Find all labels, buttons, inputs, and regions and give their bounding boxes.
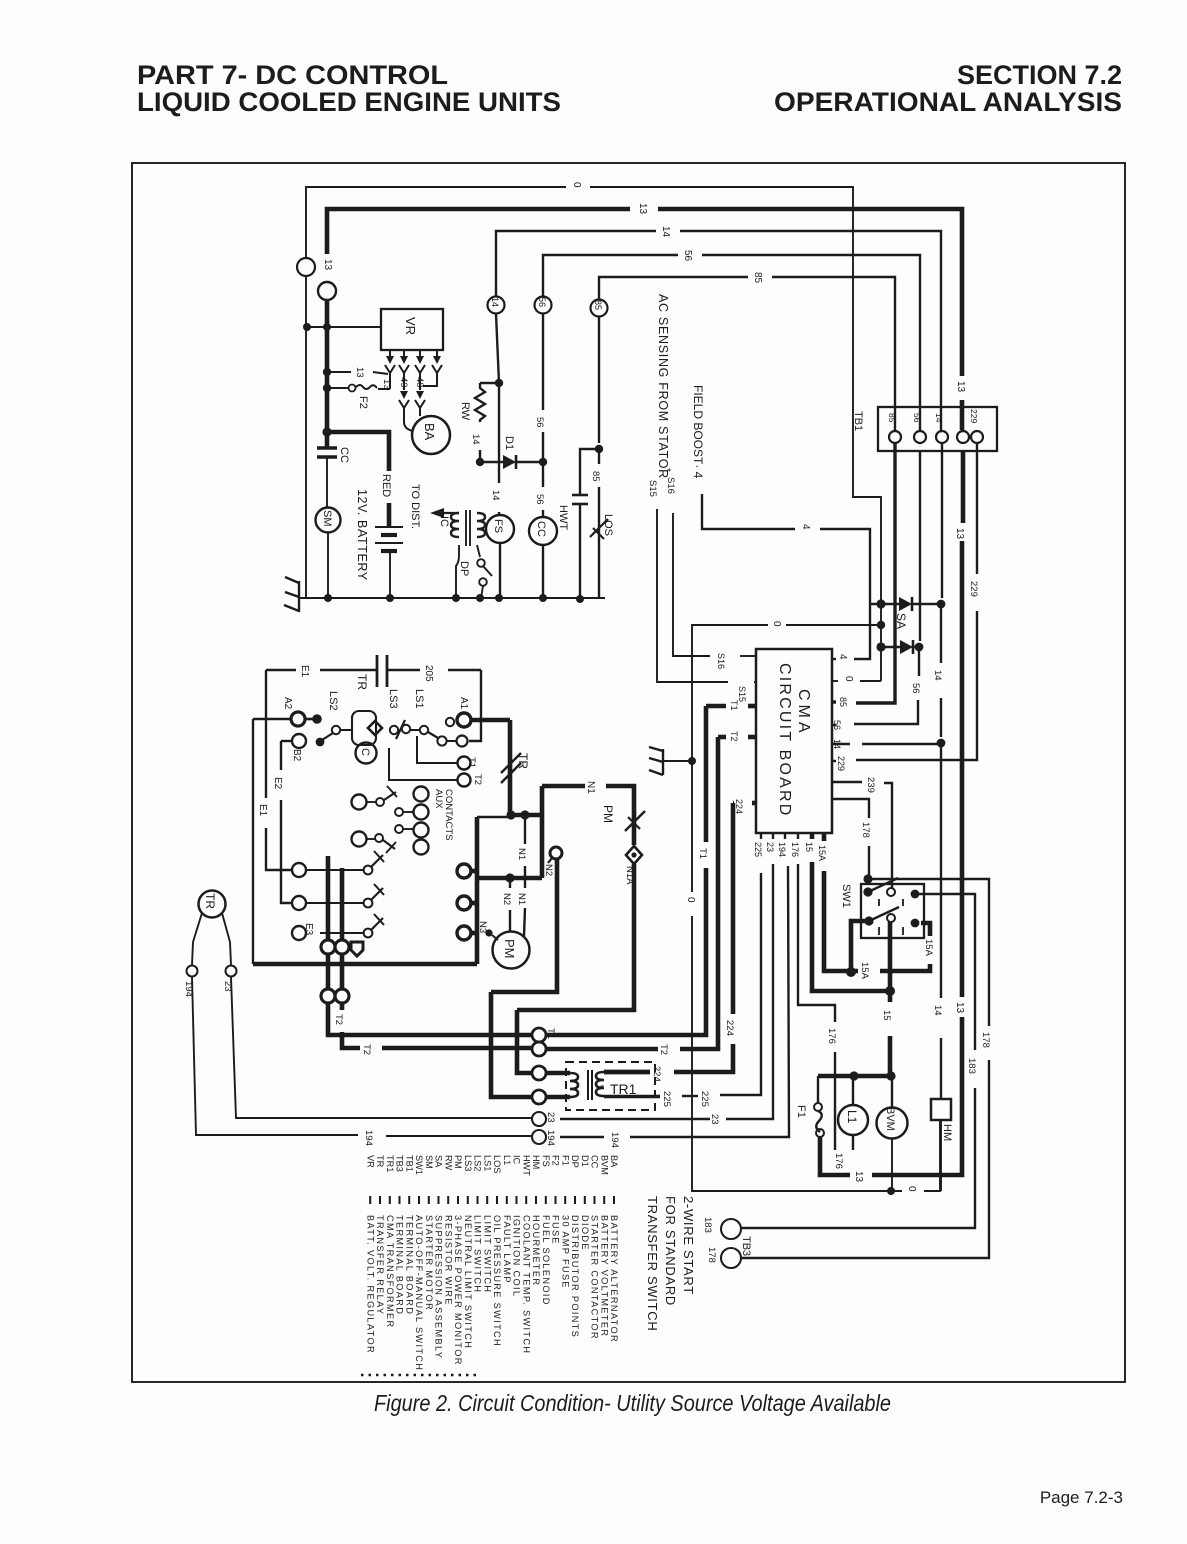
svg-text:A1: A1 <box>458 697 469 710</box>
svg-text:0: 0 <box>906 1186 917 1192</box>
svg-text:BA: BA <box>422 423 437 441</box>
svg-text:E3: E3 <box>303 923 314 936</box>
wire A2 enclosure left <box>252 719 254 964</box>
wire E1 left drop <box>265 670 267 798</box>
wire T1 bus drop <box>328 1003 532 1035</box>
wire IC right to DP <box>477 545 480 557</box>
battery voltmeter BVM <box>877 1108 908 1139</box>
CMA circuit board box <box>756 649 832 833</box>
svg-text:224: 224 <box>651 1066 662 1082</box>
terminal board TB3 circle 183 <box>721 1219 741 1239</box>
svg-text:PM: PM <box>601 805 615 823</box>
enclosure bottom edge <box>253 962 477 967</box>
wire CMA pin T2 <box>748 735 756 740</box>
svg-text:SW1: SW1 <box>414 1155 424 1175</box>
svg-text:CMA TRANSFORMER: CMA TRANSFORMER <box>385 1215 395 1329</box>
svg-text:CMA: CMA <box>795 689 812 737</box>
svg-text:CC: CC <box>338 447 350 463</box>
svg-text:PART 7- DC CONTROL: PART 7- DC CONTROL <box>137 60 448 90</box>
transfer relay TR coil <box>199 891 226 918</box>
TB1 terminal 14 <box>936 431 948 443</box>
wire net 56 to CC <box>542 314 544 410</box>
svg-text:194: 194 <box>777 842 787 857</box>
svg-text:BA: BA <box>609 1155 619 1168</box>
battery 12V <box>375 526 403 528</box>
capacitor CC <box>317 446 337 449</box>
svg-text:178: 178 <box>860 822 871 838</box>
svg-text:56: 56 <box>534 494 545 505</box>
svg-text:TR1: TR1 <box>385 1155 395 1172</box>
terminals T1 T2 aux <box>458 757 471 770</box>
wire VR supply <box>307 326 381 328</box>
svg-text:RESISTOR WIRE: RESISTOR WIRE <box>443 1215 453 1306</box>
svg-text:N3: N3 <box>477 921 488 933</box>
svg-text:HM: HM <box>941 1124 953 1141</box>
svg-text:FIELD BOOST· 4: FIELD BOOST· 4 <box>691 385 705 479</box>
svg-text:56: 56 <box>910 683 921 694</box>
wire VR pin2 to BA <box>403 378 405 390</box>
svg-text:TB1: TB1 <box>852 411 864 431</box>
svg-text:224: 224 <box>724 1020 735 1036</box>
svg-text:LS1: LS1 <box>413 689 425 709</box>
svg-text:224: 224 <box>734 799 744 814</box>
svg-text:F2: F2 <box>357 396 369 409</box>
svg-text:RW: RW <box>443 1155 453 1170</box>
svg-text:14: 14 <box>490 297 500 307</box>
wire 14 to FS <box>498 383 500 483</box>
svg-text:RED: RED <box>380 474 392 497</box>
svg-text:PM: PM <box>502 939 517 959</box>
wire CMA pin 239 to SW1 <box>832 781 862 783</box>
svg-text:CONTACTS: CONTACTS <box>443 789 454 841</box>
terminal N2 feed <box>550 847 562 859</box>
svg-text:HWT: HWT <box>557 505 569 530</box>
starter contactor CC <box>529 517 557 545</box>
terminal A2 <box>253 718 291 720</box>
wire N1A to terminal <box>517 864 634 1010</box>
terminal 23 ring <box>532 1112 546 1126</box>
svg-text:15: 15 <box>804 842 814 852</box>
branch wire to N2 <box>477 876 542 881</box>
svg-text:IC: IC <box>512 1155 522 1165</box>
svg-text:FUEL SOLENOID: FUEL SOLENOID <box>541 1215 551 1306</box>
svg-text:NEUTRAL LIMIT SWITCH: NEUTRAL LIMIT SWITCH <box>463 1215 473 1349</box>
wire SW1 row2 left to 15A <box>851 921 869 968</box>
svg-text:BVM: BVM <box>884 1107 896 1131</box>
wire TR to 23 terminal <box>222 913 231 965</box>
svg-text:229: 229 <box>968 581 979 597</box>
node 14 terminal circle <box>488 297 505 314</box>
svg-text:S16: S16 <box>665 477 676 494</box>
main contact row 3 E3 <box>292 926 306 940</box>
svg-text:SM: SM <box>321 510 333 527</box>
wire net 0 branch to ground bus <box>786 624 881 626</box>
node 85 terminal circle <box>591 300 608 317</box>
wire net 13 thick top run <box>327 209 630 254</box>
CMA bottom pin 225 <box>760 833 762 839</box>
svg-text:TB3: TB3 <box>395 1155 405 1172</box>
svg-text:LS3: LS3 <box>463 1155 473 1171</box>
svg-text:F2: F2 <box>551 1155 561 1166</box>
oil pressure switch LOS <box>590 519 608 537</box>
svg-text:BATT. VOLT. REGULATOR: BATT. VOLT. REGULATOR <box>365 1215 375 1354</box>
terminal board TB3 circle 178 <box>721 1248 741 1268</box>
wire E1 top <box>266 669 296 671</box>
terminal A1 <box>446 718 454 726</box>
arrow TO DIST <box>444 512 459 514</box>
svg-text:Figure 2. Circuit Condition- U: Figure 2. Circuit Condition- Utility Sou… <box>374 1390 891 1416</box>
wire 183 SW1 to TB3 <box>915 894 975 1050</box>
CMA bottom pin 15 thick <box>810 833 815 839</box>
svg-text:14: 14 <box>470 434 481 445</box>
svg-text:TB3: TB3 <box>740 1236 752 1256</box>
svg-text:23: 23 <box>765 842 775 852</box>
svg-text:HM: HM <box>531 1155 541 1169</box>
suppression assembly SA diode 2 <box>881 646 900 648</box>
svg-text:LOS: LOS <box>492 1155 502 1173</box>
svg-text:85: 85 <box>590 471 601 482</box>
distributor points DP <box>477 559 485 567</box>
terminal T1 ring <box>532 1028 546 1042</box>
starter motor SM <box>316 508 341 533</box>
svg-text:LS1: LS1 <box>482 1155 492 1171</box>
svg-text:TR1: TR1 <box>610 1081 637 1097</box>
TB1 terminal 56 <box>914 431 926 443</box>
fuse F2 <box>327 387 348 389</box>
svg-text:205: 205 <box>423 665 434 682</box>
wire S16 to CMA <box>673 513 710 656</box>
svg-text:15: 15 <box>881 1010 892 1021</box>
svg-text:30 AMP FUSE: 30 AMP FUSE <box>560 1215 570 1289</box>
svg-text:176: 176 <box>833 1153 844 1169</box>
svg-text:225: 225 <box>661 1091 672 1107</box>
svg-text:T1: T1 <box>697 848 708 859</box>
svg-text:13: 13 <box>853 1171 864 1183</box>
svg-text:56: 56 <box>534 417 545 428</box>
svg-text:STARTER CONTACTOR: STARTER CONTACTOR <box>590 1215 600 1340</box>
wire A1 to TR contact thick <box>471 718 510 723</box>
svg-text:14: 14 <box>932 670 943 681</box>
svg-text:AC SENSING FROM STATOR: AC SENSING FROM STATOR <box>656 294 670 479</box>
svg-text:225: 225 <box>753 842 763 857</box>
svg-text:FS: FS <box>492 519 504 533</box>
switch SW1 box <box>861 884 924 938</box>
svg-text:CC: CC <box>590 1155 600 1169</box>
wire CMA pin 224 <box>752 801 756 806</box>
coolant temp switch HWT <box>580 449 599 495</box>
svg-text:SA: SA <box>894 613 908 629</box>
wire N1 pigtail to PM <box>524 815 526 844</box>
TB1 terminal 13 <box>957 431 969 443</box>
svg-text:239: 239 <box>865 777 876 793</box>
CMA bottom pin 194 <box>784 833 786 839</box>
CMA transformer TR1 dashed box <box>566 1062 655 1110</box>
svg-text:VR: VR <box>403 317 418 335</box>
svg-text:0: 0 <box>571 182 582 188</box>
svg-text:T2: T2 <box>361 1044 372 1055</box>
svg-text:229: 229 <box>969 409 979 423</box>
svg-text:0: 0 <box>843 676 854 682</box>
svg-text:SA: SA <box>434 1155 444 1168</box>
svg-text:F1: F1 <box>795 1105 807 1118</box>
svg-text:*: * <box>661 468 672 472</box>
svg-text:85: 85 <box>593 300 603 310</box>
svg-text:SUPPRESSION ASSEMBLY: SUPPRESSION ASSEMBLY <box>434 1215 444 1359</box>
svg-text:CIRCUIT BOARD: CIRCUIT BOARD <box>776 663 793 818</box>
svg-text:DIODE: DIODE <box>580 1215 590 1251</box>
svg-text:13: 13 <box>354 367 365 378</box>
svg-text:HOURMETER: HOURMETER <box>531 1215 541 1286</box>
svg-text:DISTRIBUTOR POINTS: DISTRIBUTOR POINTS <box>570 1215 580 1338</box>
svg-text:14: 14 <box>934 413 944 423</box>
svg-text:E1: E1 <box>257 804 268 817</box>
terminal 224 ring <box>532 1066 546 1080</box>
svg-text:FS: FS <box>541 1155 551 1167</box>
wire net 14 top run <box>496 231 656 296</box>
svg-text:LS2: LS2 <box>473 1155 483 1171</box>
bus junction dots <box>324 594 332 602</box>
svg-text:SW1: SW1 <box>840 884 852 908</box>
svg-text:T1: T1 <box>466 757 477 768</box>
svg-text:TR: TR <box>203 893 217 909</box>
hourmeter HM box <box>931 1099 951 1120</box>
svg-text:L1: L1 <box>502 1155 512 1165</box>
CMA bottom pin 23 <box>772 833 774 839</box>
wire TR to 194 terminal <box>192 913 202 965</box>
svg-text:14: 14 <box>490 490 501 501</box>
wire 85 to LOS <box>598 317 600 443</box>
wire net 85 TB1 to CMA <box>856 443 895 703</box>
junction dot 15 <box>885 986 895 996</box>
svg-text:DP: DP <box>570 1155 580 1168</box>
svg-text:COOLANT TEMP. SWITCH: COOLANT TEMP. SWITCH <box>521 1215 531 1354</box>
svg-text:N2: N2 <box>543 864 554 876</box>
CMA bottom pin 15A thick <box>822 833 827 841</box>
main contact row 1 <box>292 863 306 877</box>
top rail F1 L1 BVM <box>818 1074 891 1079</box>
svg-text:D1: D1 <box>580 1155 590 1167</box>
wire CMA pin 178 to SW1 <box>832 799 869 818</box>
svg-text:CC: CC <box>535 521 547 537</box>
wire N2 drop to TR1 terminal <box>491 859 557 992</box>
wire T2 bus drop <box>340 1003 345 1010</box>
svg-text:12V. BATTERY: 12V. BATTERY <box>355 489 369 581</box>
wire net 229 TB1 to CMA <box>976 443 978 574</box>
svg-text:STARTER MOTOR: STARTER MOTOR <box>424 1215 434 1311</box>
svg-text:SM: SM <box>424 1155 434 1169</box>
main contact row 2 <box>292 896 306 910</box>
svg-text:183: 183 <box>702 1217 713 1233</box>
node 0 terminal circle <box>297 258 315 276</box>
svg-text:3-PHASE POWER MONITOR: 3-PHASE POWER MONITOR <box>453 1215 463 1366</box>
wire 13 to VR pin1 upper <box>327 371 351 373</box>
wire CC to SM <box>326 457 328 508</box>
svg-text:4: 4 <box>800 524 811 530</box>
svg-text:T2: T2 <box>658 1044 669 1055</box>
svg-text:S16: S16 <box>716 653 726 669</box>
wire net 56 TB1 to CMA <box>919 451 921 641</box>
svg-text:N1: N1 <box>516 848 527 860</box>
resistor RW <box>480 382 499 384</box>
svg-text:14: 14 <box>832 739 842 749</box>
svg-text:13: 13 <box>955 381 966 393</box>
svg-text:BATTERY ALTERNATOR: BATTERY ALTERNATOR <box>609 1215 619 1343</box>
pass-through connectors <box>326 856 331 940</box>
diode D1 <box>476 458 484 466</box>
wire 178 rail to TB3 <box>868 879 989 1026</box>
svg-text:194: 194 <box>609 1132 620 1148</box>
legend dotted rule <box>361 1374 478 1376</box>
svg-text:85: 85 <box>752 272 763 284</box>
svg-text:56: 56 <box>912 413 922 423</box>
svg-text:T1: T1 <box>729 700 739 711</box>
wire field boost 4 <box>702 494 795 529</box>
wire N2 stub to PM <box>509 878 511 888</box>
wire IC left to bus <box>456 545 459 598</box>
svg-text:13: 13 <box>954 1002 965 1014</box>
suppression assembly SA diode 1 <box>870 603 899 605</box>
svg-text:TR: TR <box>516 753 530 769</box>
power monitor PM contact <box>625 811 645 831</box>
svg-text:RW: RW <box>459 402 471 421</box>
svg-text:229: 229 <box>836 756 846 771</box>
junction dots on 13 drop <box>323 368 331 376</box>
svg-text:183: 183 <box>966 1058 977 1074</box>
terminal board TB1 box <box>878 407 997 451</box>
junction dot 15A <box>846 967 856 977</box>
svg-text:T2: T2 <box>333 1014 344 1025</box>
svg-text:LIQUID COOLED ENGINE UNITS: LIQUID COOLED ENGINE UNITS <box>137 87 561 117</box>
TR1 primary coil <box>546 1071 570 1076</box>
SW1 row1 contacts <box>863 874 872 883</box>
svg-text:OPERATIONAL ANALYSIS: OPERATIONAL ANALYSIS <box>774 87 1122 117</box>
svg-text:225: 225 <box>699 1091 710 1107</box>
svg-text:TRANSFER SWITCH: TRANSFER SWITCH <box>645 1196 660 1331</box>
svg-text:IGNITION COIL: IGNITION COIL <box>512 1215 522 1297</box>
node 56 terminal circle <box>535 297 552 314</box>
svg-text:178: 178 <box>706 1247 717 1263</box>
junction dots SA rows on net 0 <box>876 599 885 608</box>
svg-text:23: 23 <box>545 1112 556 1123</box>
VR output pins with connectors <box>389 350 391 356</box>
svg-text:15A: 15A <box>923 939 934 957</box>
svg-text:TB1: TB1 <box>404 1155 414 1172</box>
wire 15 from SW1 row2 pivot <box>888 922 893 1002</box>
wire net 0 CMA pin stub <box>860 680 881 682</box>
SW1 row2 contacts <box>864 916 873 925</box>
capacitor TR <box>376 655 379 687</box>
svg-text:194: 194 <box>545 1130 556 1146</box>
node 13 terminal circle <box>318 282 336 300</box>
wire CMA pin 14 <box>832 743 850 745</box>
svg-text:DP: DP <box>458 561 470 576</box>
svg-text:LIMIT SWITCH: LIMIT SWITCH <box>473 1215 483 1293</box>
wire N1 to PM monitor switch <box>542 784 585 789</box>
svg-text:Page 7.2-3: Page 7.2-3 <box>1040 1488 1123 1507</box>
svg-text:2-WIRE START: 2-WIRE START <box>681 1196 696 1295</box>
fuse F1 <box>814 1103 822 1111</box>
svg-text:FUSE: FUSE <box>551 1215 561 1245</box>
ground symbol main <box>299 597 306 599</box>
CMA bottom pin 176 <box>797 833 799 839</box>
terminal N3 <box>485 929 492 936</box>
svg-text:PM: PM <box>453 1155 463 1169</box>
svg-text:BVM: BVM <box>599 1155 609 1175</box>
svg-text:L1: L1 <box>845 1110 859 1124</box>
connector N1A <box>626 846 642 864</box>
wire RED battery positive <box>327 432 389 471</box>
battery alternator BA <box>412 416 450 454</box>
svg-text:23: 23 <box>709 1114 720 1125</box>
svg-text:T2: T2 <box>472 774 483 785</box>
junction dot BVM bottom on net 0 <box>887 1187 895 1195</box>
svg-text:TERMINAL BOARD: TERMINAL BOARD <box>404 1215 414 1315</box>
svg-text:VR: VR <box>365 1155 375 1168</box>
3-phase power monitor PM <box>493 932 530 969</box>
terminal 194 ring <box>532 1130 546 1144</box>
wire VR pin4 jog <box>423 378 437 386</box>
fuel solenoid FS <box>486 515 514 543</box>
voltage regulator VR box <box>381 309 443 350</box>
svg-text:B2: B2 <box>291 749 302 762</box>
wire net 14 TB1 drop to HM <box>941 443 943 598</box>
svg-text:BATTERY VOLTMETER: BATTERY VOLTMETER <box>599 1215 609 1337</box>
junction dot VR feed <box>303 323 311 331</box>
svg-text:N1: N1 <box>585 781 596 794</box>
svg-text:TR: TR <box>375 1155 385 1168</box>
transfer relay TR contact <box>508 720 513 815</box>
fault lamp L1 <box>838 1105 868 1135</box>
svg-text:15A: 15A <box>859 962 870 980</box>
svg-text:LS3: LS3 <box>387 689 399 709</box>
wire net 85 top run <box>599 277 748 299</box>
svg-text:FAULT LAMP: FAULT LAMP <box>502 1215 512 1284</box>
svg-text:S15: S15 <box>647 480 658 497</box>
terminal B2 and wire E2 <box>292 734 306 748</box>
TR1 core <box>587 1070 589 1100</box>
figure border frame <box>132 163 1125 1382</box>
terminal 225 ring <box>532 1090 546 1104</box>
svg-text:F1: F1 <box>560 1155 570 1166</box>
svg-text:LIMIT SWITCH: LIMIT SWITCH <box>482 1215 492 1293</box>
svg-text:AUX: AUX <box>433 789 444 809</box>
svg-text:D1: D1 <box>503 436 515 450</box>
svg-text:56: 56 <box>682 250 693 262</box>
svg-text:0: 0 <box>685 897 696 903</box>
svg-text:FOR STANDARD: FOR STANDARD <box>663 1196 678 1306</box>
ground symbol CMA <box>663 760 692 762</box>
svg-text:194: 194 <box>363 1130 374 1146</box>
ground bus bottom <box>304 597 605 599</box>
wire net 13 TB1 drop <box>961 451 966 523</box>
wire VR pin3 to BA <box>419 378 421 390</box>
wire SM to bus <box>327 533 329 598</box>
wire net 0 top run <box>306 187 566 258</box>
svg-text:176: 176 <box>790 842 800 857</box>
svg-text:N2: N2 <box>501 893 512 905</box>
svg-text:178: 178 <box>980 1032 991 1048</box>
svg-text:176: 176 <box>826 1028 837 1044</box>
TB1 terminal 85 <box>889 431 901 443</box>
svg-text:OIL PRESSURE SWITCH: OIL PRESSURE SWITCH <box>492 1215 502 1347</box>
wire CMA pin T1 <box>748 704 756 709</box>
svg-text:C: C <box>359 748 371 756</box>
svg-text:HWT: HWT <box>521 1155 531 1176</box>
contactor C cluster <box>352 711 376 745</box>
svg-text:0: 0 <box>771 621 782 627</box>
svg-text:E2: E2 <box>272 777 283 790</box>
svg-text:LS2: LS2 <box>327 691 339 711</box>
